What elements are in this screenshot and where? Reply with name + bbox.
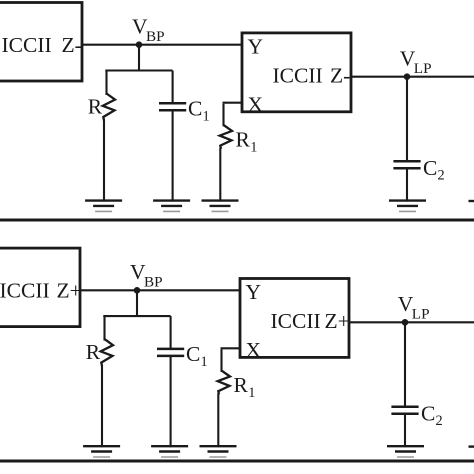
svg-text:R: R xyxy=(86,340,101,364)
bottom border line xyxy=(0,460,474,463)
resistor R1 xyxy=(218,371,230,395)
ground under R xyxy=(85,199,122,201)
svg-text:R: R xyxy=(236,127,251,151)
svg-text:LP: LP xyxy=(412,306,430,323)
wire X corner down to R1 xyxy=(220,349,222,372)
svg-text:Z-: Z- xyxy=(330,64,350,88)
svg-text:2: 2 xyxy=(438,168,445,184)
resistor R xyxy=(103,94,115,121)
ground under C2 xyxy=(389,199,426,201)
svg-text:ICCII: ICCII xyxy=(2,33,52,57)
svg-text:1: 1 xyxy=(248,385,255,401)
node VLP (junction dot) xyxy=(402,319,409,326)
separator line between circuits xyxy=(0,219,474,222)
wire VLP node down to C2 xyxy=(404,322,406,407)
resistor R lead (top) xyxy=(105,70,107,96)
svg-text:X: X xyxy=(246,338,262,362)
ground under C1 xyxy=(151,445,188,447)
ICCII block UB1 (Z+ type, left) xyxy=(0,248,80,327)
svg-text:R: R xyxy=(234,373,249,397)
capacitor C1 lead (bottom) xyxy=(170,356,172,448)
svg-text:1: 1 xyxy=(203,109,210,125)
capacitor C2 xyxy=(391,406,418,409)
wire UB1 Z+ output to UB2 Y input xyxy=(80,289,241,291)
capacitor C2 xyxy=(393,160,420,163)
capacitor C1 lead (bottom) xyxy=(172,110,174,202)
capacitor C1 xyxy=(159,102,186,105)
svg-text:2: 2 xyxy=(436,413,443,429)
capacitor C2 lead (bottom) xyxy=(406,168,408,202)
svg-text:C: C xyxy=(423,156,437,180)
wire UB2 Z+ output to right edge xyxy=(348,321,474,323)
node VLP (junction dot) xyxy=(404,73,411,80)
svg-text:1: 1 xyxy=(201,354,208,370)
ICCII block UB2 (Z+ type, right) xyxy=(240,279,349,358)
ICCII block UA1 (Z- type, left) xyxy=(0,3,82,82)
ICCII block UA2 (Z- type, right) xyxy=(242,33,351,112)
wire junction R to C1 xyxy=(105,69,172,71)
svg-text:ICCII: ICCII xyxy=(0,278,50,302)
svg-text:ICCII: ICCII xyxy=(273,64,323,88)
wire UA1 Z- output to UA2 Y input xyxy=(82,44,243,46)
svg-text:BP: BP xyxy=(144,274,163,291)
svg-text:1: 1 xyxy=(250,140,257,156)
ground under R xyxy=(83,445,120,447)
capacitor C1 lead (top) xyxy=(170,316,172,350)
resistor R1 xyxy=(220,125,232,149)
node VBP (junction dot) xyxy=(134,287,141,294)
resistor R lead (bottom) xyxy=(103,119,105,201)
svg-text:Z-: Z- xyxy=(62,33,82,57)
resistor R xyxy=(101,339,113,366)
svg-text:Y: Y xyxy=(246,280,262,304)
wire X corner down to R1 xyxy=(222,104,224,127)
resistor R lead (top) xyxy=(103,315,105,341)
wire junction R to C1 xyxy=(103,315,170,317)
wire VLP node down to C2 xyxy=(406,77,408,162)
node VBP (junction dot) xyxy=(136,41,143,48)
wire UB2 X input to R1 xyxy=(221,347,242,349)
wire VBP node down to RC junction xyxy=(138,45,140,71)
resistor R1 lead (bottom) xyxy=(219,148,221,202)
capacitor C1 xyxy=(157,348,184,351)
svg-text:Z+: Z+ xyxy=(57,278,82,302)
svg-text:Y: Y xyxy=(248,35,264,59)
svg-text:C: C xyxy=(186,342,200,366)
ground under C1 xyxy=(153,199,190,201)
capacitor C1 lead (top) xyxy=(172,71,174,105)
svg-text:Z+: Z+ xyxy=(325,309,350,333)
partial ground at right edge (cropped element) xyxy=(469,200,474,202)
wire VBP node down to RC junction xyxy=(136,290,138,316)
svg-text:C: C xyxy=(188,97,202,121)
partial ground at right edge (cropped element) xyxy=(469,445,474,447)
ground under R1 xyxy=(202,199,239,201)
svg-text:C: C xyxy=(421,401,435,425)
wire UA2 X input to R1 xyxy=(223,102,244,104)
svg-text:ICCII: ICCII xyxy=(271,309,321,333)
capacitor C2 lead (bottom) xyxy=(404,414,406,448)
svg-text:LP: LP xyxy=(414,60,432,77)
ground under R1 xyxy=(200,445,237,447)
resistor R1 lead (bottom) xyxy=(217,393,219,447)
svg-text:R: R xyxy=(88,95,103,119)
svg-text:BP: BP xyxy=(146,28,165,45)
ground under C2 xyxy=(387,445,424,447)
resistor R lead (bottom) xyxy=(101,365,103,447)
wire UA2 Z- output to right edge xyxy=(350,76,474,78)
svg-text:X: X xyxy=(248,92,264,116)
